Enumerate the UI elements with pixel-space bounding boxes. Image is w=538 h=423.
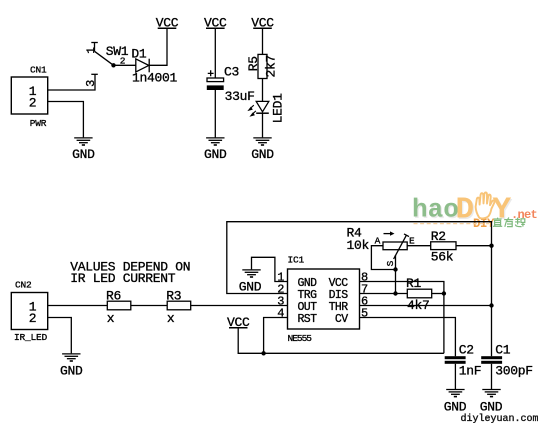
VCC supply 4 bbox=[227, 315, 250, 330]
svg-text:x: x bbox=[107, 311, 115, 326]
LED LED1 bbox=[247, 93, 285, 124]
svg-text:R6: R6 bbox=[106, 289, 121, 304]
svg-text:R3: R3 bbox=[166, 289, 181, 304]
svg-text:R1: R1 bbox=[406, 276, 422, 291]
svg-text:3: 3 bbox=[84, 80, 98, 87]
LOGO haoDIY.net watermark bbox=[412, 192, 538, 231]
wire LED1 to ground bbox=[262, 113, 264, 137]
dashed underline bbox=[414, 223, 490, 225]
wire R4 wiper to DIS bbox=[395, 255, 397, 294]
svg-text:C2: C2 bbox=[459, 343, 474, 358]
svg-text:CN2: CN2 bbox=[15, 279, 32, 290]
svg-text:IR LED CURRENT: IR LED CURRENT bbox=[70, 271, 176, 286]
hand icon bbox=[476, 192, 495, 218]
svg-text:IR_LED: IR_LED bbox=[14, 332, 48, 343]
junction bbox=[393, 291, 397, 295]
ground bbox=[60, 354, 83, 379]
capacitor C1 bbox=[481, 343, 533, 379]
CJK tagline (drawn glyphs) bbox=[493, 218, 525, 227]
resistor R3 bbox=[166, 289, 191, 326]
svg-text:1: 1 bbox=[86, 47, 98, 54]
svg-text:2: 2 bbox=[29, 95, 37, 110]
svg-text:VCC: VCC bbox=[227, 315, 250, 330]
svg-text:GND: GND bbox=[60, 364, 83, 379]
svg-text:S: S bbox=[385, 260, 396, 266]
ground bbox=[251, 138, 274, 162]
svg-text:R5: R5 bbox=[246, 56, 261, 71]
svg-text:10k: 10k bbox=[347, 238, 370, 253]
wire R6 to R3 bbox=[131, 305, 167, 307]
wire VCC to R5 bbox=[262, 28, 264, 54]
svg-text:300pF: 300pF bbox=[495, 364, 533, 379]
wire R3 to IC1 OUT bbox=[191, 305, 288, 307]
wire C3 to ground bbox=[214, 90, 216, 137]
VCC supply 2 bbox=[204, 15, 227, 30]
svg-text:56k: 56k bbox=[431, 250, 454, 265]
svg-text:1nF: 1nF bbox=[459, 364, 482, 379]
wire CN1 pin1 to SW1 bbox=[48, 74, 95, 90]
svg-text:VCC: VCC bbox=[204, 15, 227, 30]
wire VCC rail up to pin8 bbox=[360, 282, 444, 354]
svg-text:GND: GND bbox=[72, 147, 95, 162]
resistor R5 bbox=[246, 54, 279, 78]
potentiometer R4 bbox=[347, 225, 416, 266]
connector CN2 bbox=[11, 279, 47, 343]
ground bbox=[72, 138, 95, 162]
wire R2 to right rail bbox=[456, 245, 492, 247]
svg-text:IC1: IC1 bbox=[288, 255, 305, 266]
op-amp IC1 NE555 bbox=[288, 255, 360, 345]
svg-text:hao: hao bbox=[412, 195, 459, 225]
svg-text:GND: GND bbox=[239, 280, 262, 295]
wire IC1 pin2 TRG loop to right rail bbox=[227, 222, 492, 357]
VCC supply 3 bbox=[251, 15, 274, 30]
svg-text:4: 4 bbox=[277, 306, 284, 320]
svg-text:RST: RST bbox=[298, 313, 318, 326]
resistor R6 bbox=[106, 289, 131, 326]
svg-text:CV: CV bbox=[335, 313, 348, 326]
svg-text:2: 2 bbox=[29, 311, 37, 326]
svg-text:VCC: VCC bbox=[156, 15, 179, 30]
svg-text:D1: D1 bbox=[131, 46, 147, 61]
VCC supply 1 bbox=[156, 15, 179, 30]
svg-text:E: E bbox=[409, 235, 415, 246]
connector CN1 bbox=[11, 64, 47, 129]
svg-text:GND: GND bbox=[204, 147, 227, 162]
ground bbox=[204, 138, 227, 162]
svg-text:CN1: CN1 bbox=[30, 64, 47, 75]
wire IC1 pin4 RST bbox=[264, 318, 288, 354]
svg-text:GND: GND bbox=[444, 399, 467, 414]
svg-text:+: + bbox=[207, 69, 213, 81]
wire R5 to LED1 bbox=[262, 79, 264, 102]
ground bbox=[480, 390, 503, 415]
svg-text:A: A bbox=[375, 235, 381, 246]
wire C1 to ground bbox=[491, 364, 493, 389]
ground bbox=[239, 270, 262, 295]
junction bbox=[261, 351, 265, 355]
wire CN1 pin2 to ground bbox=[48, 102, 84, 138]
wire D1 to VCC bbox=[149, 28, 167, 65]
wire CN2 pin2 to ground bbox=[48, 318, 72, 354]
capacitor C3 bbox=[207, 65, 255, 105]
wire IC1 pin5 CV to C2 bbox=[360, 318, 456, 357]
svg-text:diyleyuan.com: diyleyuan.com bbox=[461, 413, 538, 423]
svg-text:C1: C1 bbox=[495, 343, 511, 358]
resistor R2 bbox=[431, 229, 456, 265]
wire IC1 pin6 THR to right rail bbox=[360, 305, 492, 307]
svg-text:VCC: VCC bbox=[251, 15, 274, 30]
wire VCC to C3 bbox=[214, 28, 216, 78]
junction bbox=[489, 244, 493, 248]
wire IC1 pin7 DIS to R1 bbox=[360, 293, 408, 295]
wire R4 E to R2 bbox=[407, 245, 431, 247]
svg-text:1n4001: 1n4001 bbox=[132, 71, 178, 86]
diode D1 bbox=[131, 46, 177, 85]
svg-text:R2: R2 bbox=[431, 229, 446, 244]
junction bbox=[489, 303, 493, 307]
svg-text:PWR: PWR bbox=[30, 118, 47, 129]
ground bbox=[444, 390, 467, 415]
wire VCC to RST rail bbox=[238, 328, 444, 354]
svg-text:5: 5 bbox=[361, 306, 368, 320]
wire R1 to VCC rail bbox=[432, 293, 444, 295]
wire IC1 pin1 to ground bbox=[252, 257, 288, 281]
switch SW1 bbox=[86, 43, 129, 75]
wire R4 A terminal loop to wiper bbox=[371, 246, 395, 270]
junction bbox=[442, 291, 446, 295]
note text bbox=[70, 259, 538, 423]
svg-text:33uF: 33uF bbox=[225, 89, 255, 104]
resistor R1 bbox=[406, 276, 432, 313]
svg-text:GND: GND bbox=[251, 147, 274, 162]
junction bbox=[393, 267, 397, 271]
svg-text:x: x bbox=[167, 311, 175, 326]
svg-text:NE555: NE555 bbox=[288, 333, 313, 344]
svg-text:LED1: LED1 bbox=[271, 93, 286, 124]
svg-text:GND: GND bbox=[480, 399, 503, 414]
wire SW1 to D1 bbox=[114, 64, 136, 66]
svg-text:C3: C3 bbox=[224, 65, 239, 80]
wire CN2 pin1 to R6 bbox=[48, 305, 108, 307]
capacitor C2 bbox=[445, 343, 482, 379]
svg-text:2k7: 2k7 bbox=[264, 55, 279, 78]
wire C2 to ground bbox=[454, 364, 456, 389]
